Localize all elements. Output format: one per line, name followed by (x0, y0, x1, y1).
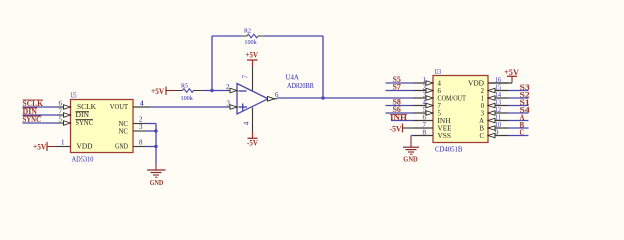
wire S5 to U3 pin 1 (386, 82, 414, 84)
svg-text:3: 3 (139, 123, 143, 131)
wire feedback right vertical (322, 36, 324, 98)
U3 pin 1 (413, 82, 433, 84)
wire SYNC to U5 pin 5 (23, 122, 58, 124)
svg-text:8: 8 (139, 138, 143, 146)
svg-text:VOUT: VOUT (110, 102, 129, 111)
svg-text:9: 9 (495, 129, 499, 137)
svg-text:VSS: VSS (438, 131, 452, 140)
svg-text:VDD: VDD (77, 142, 94, 151)
wire A from U3 (508, 120, 529, 122)
U3 pin 11 (488, 120, 508, 122)
power port +5V at U3 VDD (488, 82, 512, 84)
U3 pin 15 (488, 90, 508, 92)
svg-text:NC: NC (119, 126, 129, 135)
junction at pin8/vertical (154, 145, 157, 148)
U3 pin 6 (413, 120, 433, 122)
IC U3 CD4051B body (433, 76, 488, 143)
wire S7 to U3 pin 2 (386, 90, 414, 92)
op-amp inverting input minus sign (239, 90, 247, 92)
junction at pin3/vertical (154, 129, 157, 132)
svg-text:1: 1 (61, 138, 65, 146)
wire U3 VSS pin 8 to ground (411, 135, 414, 137)
U5 pin 1 VDD (56, 146, 71, 148)
U3 pin 2 (413, 90, 433, 92)
U5 pin 3 NC (133, 130, 146, 132)
U3 pin 9 (488, 135, 508, 137)
svg-text:2: 2 (226, 83, 230, 91)
svg-text:+5V: +5V (151, 87, 164, 96)
IC U5 AD5310 body (71, 100, 134, 153)
U3 pin 12 (488, 112, 508, 114)
U3 pin 8 (413, 135, 433, 137)
svg-text:6: 6 (59, 99, 63, 107)
junction R5 wire / R2 feedback (210, 89, 213, 92)
U3 pin 14 (488, 97, 508, 99)
wire S3 from U3 (508, 90, 529, 92)
wire feedback left vertical (211, 36, 213, 91)
U3 pin 10 (488, 127, 508, 129)
svg-text:4: 4 (242, 121, 250, 125)
svg-text:R5: R5 (181, 82, 189, 89)
svg-text:GND: GND (115, 142, 128, 151)
wire U5 GND pin8 to vertical (146, 146, 156, 148)
svg-text:-5V: -5V (247, 139, 258, 148)
wire U5 NC pin3 to vertical (146, 130, 156, 132)
svg-text:3: 3 (227, 99, 231, 107)
resistor R2 100k (241, 35, 247, 37)
svg-text:U3: U3 (435, 67, 442, 76)
wire U5 NC pin2 to vertical (146, 123, 156, 125)
vertical wire NC/GND down to ground (155, 124, 157, 165)
U3 pin 3 (413, 97, 433, 99)
svg-text:5: 5 (59, 115, 63, 123)
svg-text:R2: R2 (244, 27, 251, 34)
op-amp pin 6 output (268, 98, 277, 100)
wire SCLK to U5 pin 6 (23, 106, 58, 108)
power port +5V at op-amp pin 7 (252, 60, 254, 67)
wire C from U3 (508, 135, 529, 137)
power port -5V at op-amp pin 4 (252, 132, 254, 139)
wire R5 to op-amp pin 2 (203, 90, 227, 92)
wire S2 from U3 (508, 97, 529, 99)
svg-text:AD5310: AD5310 (72, 155, 94, 164)
U5 pin 5 SYNC (57, 122, 71, 124)
wire S4 from U3 (508, 112, 529, 114)
svg-text:+5V: +5V (504, 68, 519, 77)
svg-text:-5V: -5V (390, 125, 402, 134)
svg-text:100k: 100k (244, 39, 257, 46)
U5 pin 2 NC (133, 123, 146, 125)
wire S1 from U3 (508, 105, 529, 107)
wire +5V bar to U5 pin 1 (47, 146, 56, 148)
wire INH to U3 pin 6 (391, 120, 413, 122)
svg-text:U5: U5 (71, 91, 77, 100)
U5 pin 7 DIN (57, 114, 71, 116)
wire S8 to U3 pin 4 (386, 105, 414, 107)
wire -5V bar to U3 pin 7 (403, 127, 414, 129)
wire feedback top left segment (212, 35, 241, 37)
wire B from U3 (508, 127, 529, 129)
U3 pin 16 (488, 82, 508, 84)
U3 pin 4 (413, 105, 433, 107)
svg-text:GND: GND (403, 155, 418, 164)
svg-text:100k: 100k (181, 95, 194, 102)
svg-text:COM/OUT: COM/OUT (438, 93, 467, 102)
svg-text:C: C (480, 131, 485, 140)
svg-text:U4A: U4A (286, 74, 299, 82)
ground symbol below U5 (155, 164, 157, 170)
wire U5 VOUT to op-amp pin 3 (150, 106, 227, 108)
wire S6 to U3 pin 5 (386, 112, 414, 114)
svg-text:+5V: +5V (33, 143, 46, 152)
svg-text:AD820BR: AD820BR (287, 82, 314, 90)
svg-text:7: 7 (59, 107, 63, 115)
svg-text:+5V: +5V (246, 51, 259, 60)
U3 pin 5 (413, 112, 433, 114)
wire feedback top right segment (264, 35, 323, 37)
svg-text:GND: GND (150, 178, 164, 187)
op-amp pin 3 non-inverting input (227, 106, 237, 108)
op-amp pin 2 inverting input (227, 90, 237, 92)
svg-text:7: 7 (241, 75, 249, 79)
svg-text:CD4051B: CD4051B (435, 144, 462, 153)
U3 pin 7 (413, 127, 433, 129)
wire +5V bar to R5 (166, 90, 175, 92)
wire op-amp output to U3 COM/OUT (277, 97, 413, 99)
ground symbol below U3 (403, 146, 419, 148)
U5 pin 6 SCLK (57, 106, 71, 108)
op-amp pin 4 V- supply (252, 108, 254, 132)
wire DIN to U5 pin 7 (23, 114, 58, 116)
resistor R5 100k (175, 90, 183, 92)
svg-text:8: 8 (423, 129, 427, 137)
U3 pin 13 (488, 105, 508, 107)
op-amp non-inverting input plus sign (239, 106, 248, 108)
junction feedback / output wire (321, 96, 324, 99)
op-amp pin 7 V+ supply (252, 67, 254, 91)
op-amp U4A AD820BR triangle (237, 84, 268, 115)
U5 pin 8 GND (133, 146, 146, 148)
svg-text:4: 4 (140, 99, 144, 107)
U5 pin 4 VOUT (133, 106, 150, 108)
